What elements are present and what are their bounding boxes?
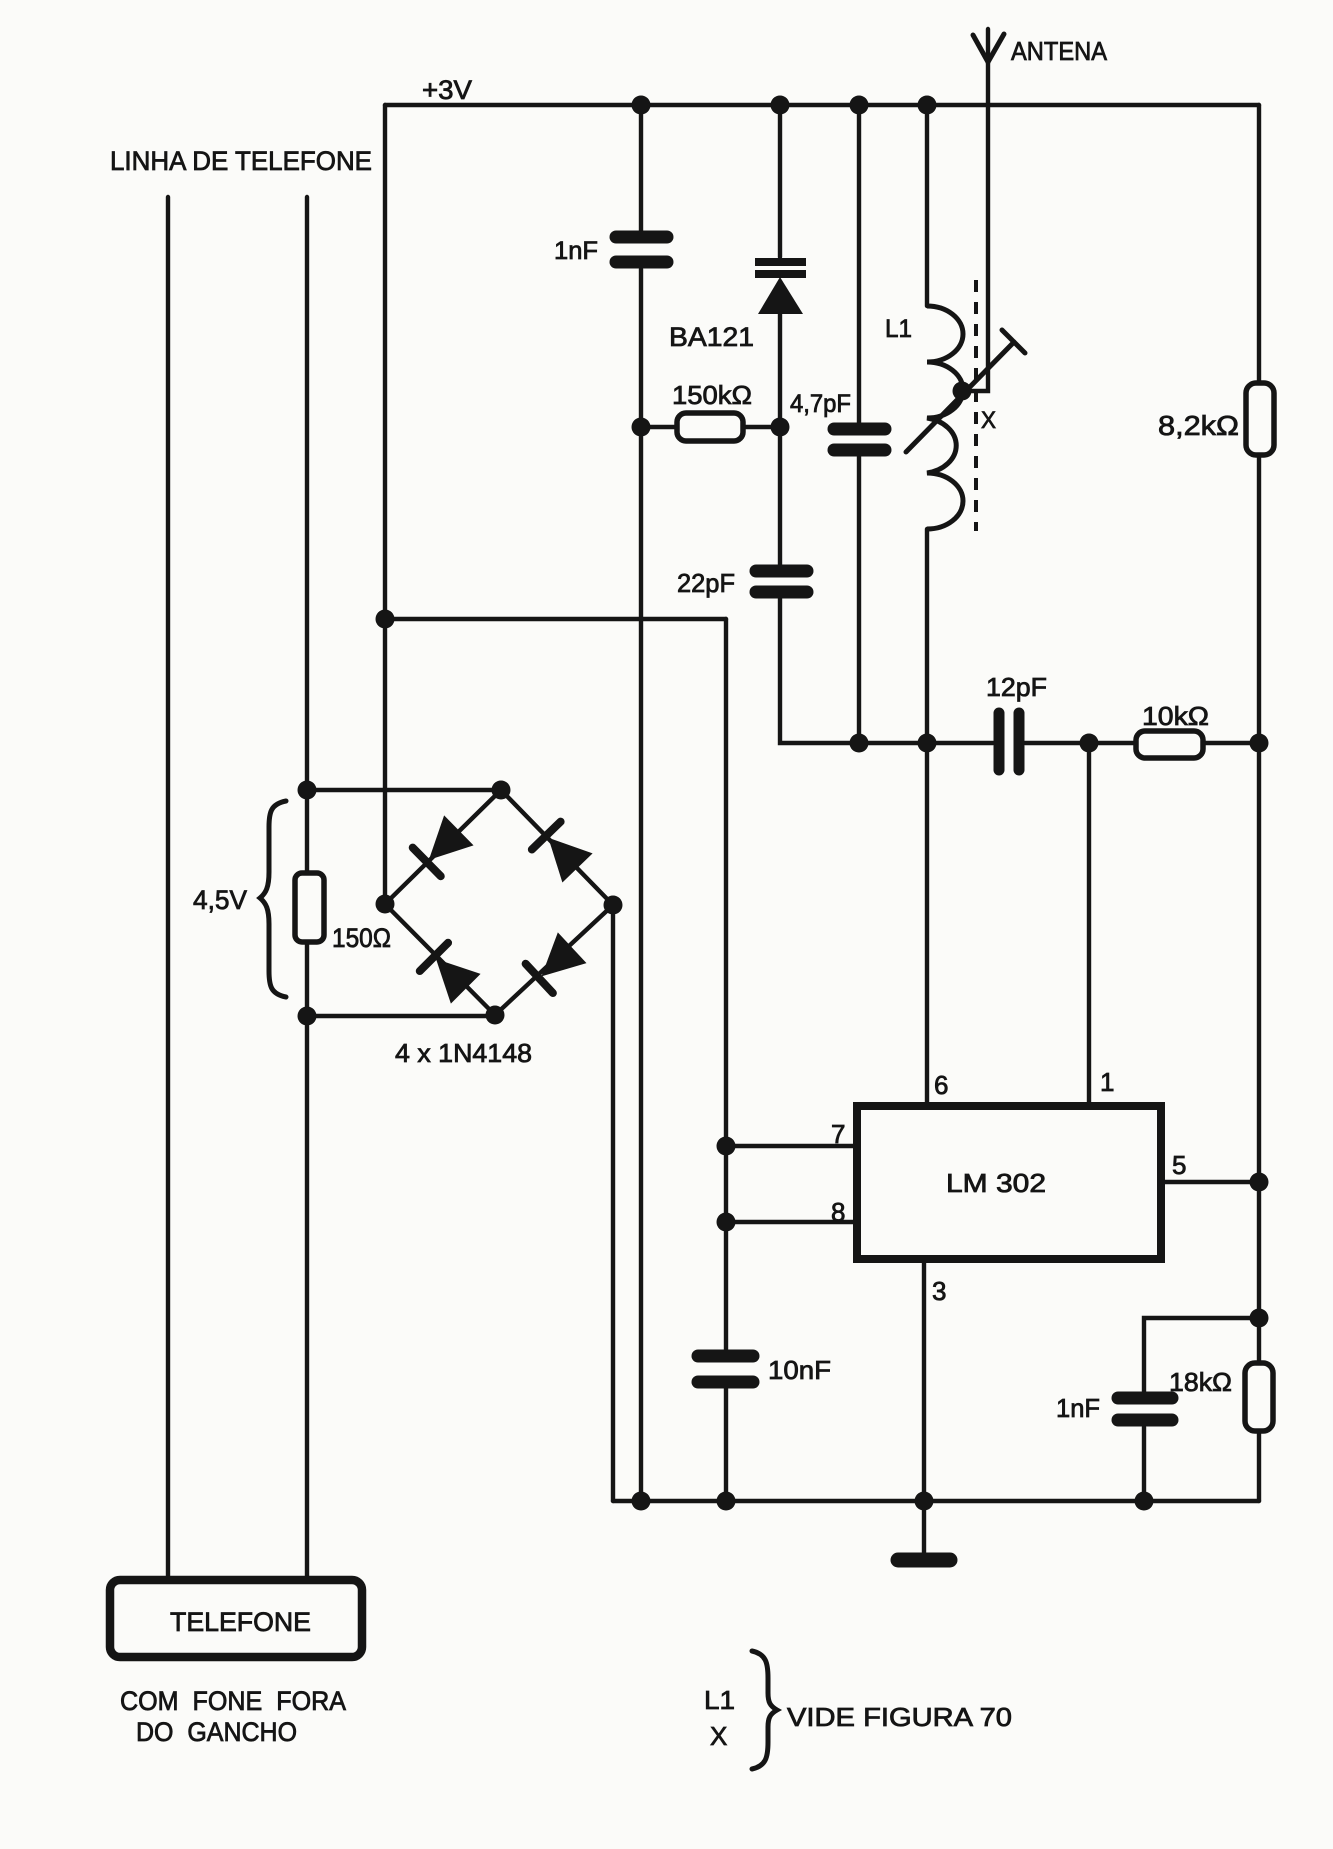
wire upper AC node to bridge top corner (307, 788, 501, 792)
inductor L1 coil (927, 306, 963, 529)
node dot top rail / L1 (918, 96, 937, 115)
wire BA121 anode to 22pF (778, 314, 782, 565)
svg-text:L1: L1 (885, 315, 912, 343)
node dot bridge bottom corner (486, 1006, 505, 1025)
core dashed line of L1 (974, 280, 978, 531)
capacitor C1 1nF plates (616, 237, 667, 262)
diode D4 bottom-right of bridge (525, 932, 587, 993)
node dot 18k top (1250, 1309, 1269, 1328)
resistor 18k body (1245, 1363, 1273, 1431)
resistor 150k body (677, 413, 743, 441)
svg-text:3: 3 (932, 1276, 946, 1306)
svg-text:10kΩ: 10kΩ (1142, 701, 1209, 731)
node dot mid rail / pin1 (1080, 734, 1099, 753)
wire pin 1 drop (1087, 743, 1091, 1102)
node dot ground rail / 1nF bottom branch (1135, 1492, 1154, 1511)
resistor 8.2k body (1246, 383, 1274, 455)
svg-text:8,2kΩ: 8,2kΩ (1158, 410, 1239, 441)
svg-text:1: 1 (1100, 1067, 1114, 1097)
node dot 150k right / BA121 anode (771, 418, 790, 437)
wire L1 branch from +3V to coil top (925, 105, 929, 306)
node dot 150k left (632, 418, 651, 437)
node dot mid rail / 4.7pF (850, 734, 869, 753)
wire bridge right corner drop to ground rail (611, 905, 615, 1501)
svg-text:TELEFONE: TELEFONE (170, 1607, 311, 1637)
svg-text:6: 6 (934, 1070, 948, 1100)
wire telephone line left (166, 197, 170, 1576)
svg-text:X: X (981, 407, 996, 434)
svg-text:COM FONE FORA: COM FONE FORA (120, 1686, 346, 1716)
resistor 150R body (295, 873, 324, 942)
brace 4.5V (260, 801, 286, 997)
wire 150k left lead (641, 425, 677, 429)
node dot branch A at x=385 (376, 610, 395, 629)
wire 22pF bottom, corner to mid node rail (780, 597, 993, 743)
varicap BA121 (755, 262, 806, 314)
ground (898, 1553, 950, 1568)
node dot pin 8 (717, 1213, 736, 1232)
wire 1nF(bottom) top to 18k node (1144, 1318, 1259, 1392)
svg-text:5: 5 (1172, 1150, 1186, 1180)
node dot ground rail / 1nF branch (632, 1492, 651, 1511)
wire 10k resistor to right rail (1203, 741, 1259, 745)
wire 1nF branch lower down to ground rail (639, 269, 643, 1501)
resistor 10k body (1136, 731, 1203, 758)
node dot phone line upper (298, 781, 317, 800)
wire x=726 drop to 10nF (724, 619, 728, 1350)
wire 1nF(bottom) branch from ground rail (1142, 1427, 1146, 1501)
node dot mid rail / L1 line (918, 734, 937, 753)
wire coil bottom down to pin 6 (925, 529, 929, 1102)
wire 150k right lead (743, 425, 780, 429)
svg-text:BA121: BA121 (669, 322, 754, 352)
wire 4.7pF branch lower to mid node (857, 456, 861, 743)
node dot top rail / 4.7pF (850, 96, 869, 115)
svg-text:1nF: 1nF (554, 237, 598, 265)
capacitor 10nF plates (698, 1356, 753, 1382)
node dot phone line lower (298, 1007, 317, 1026)
wire 12pF to 10k resistor (1025, 741, 1136, 745)
diode D3 bottom-left of bridge (419, 942, 481, 1004)
svg-text:10nF: 10nF (768, 1355, 831, 1385)
node dot bridge left corner (376, 895, 395, 914)
wire BA121 branch top (778, 105, 782, 257)
node dot pin 5 / right rail (1250, 1173, 1269, 1192)
node dot coil tap (953, 382, 972, 401)
wire 1nF branch upper (639, 105, 643, 231)
telephone box (110, 1580, 362, 1657)
svg-text:ANTENA: ANTENA (1011, 36, 1108, 66)
svg-text:150Ω: 150Ω (332, 923, 391, 953)
svg-text:4,5V: 4,5V (193, 885, 247, 915)
svg-text:LM 302: LM 302 (946, 1168, 1046, 1198)
wire right rail from +3V down to ground rail (1257, 105, 1261, 1501)
capacitor 12pF plates (999, 713, 1019, 770)
diode D1 top-left of bridge (412, 815, 474, 876)
node dot mid rail / right rail (1250, 734, 1269, 753)
svg-text:4,7pF: 4,7pF (790, 390, 851, 418)
node dot ground rail / 10nF branch (717, 1492, 736, 1511)
svg-text:L1: L1 (704, 1685, 735, 1715)
wire +3V top rail (385, 103, 1259, 107)
wire ground rail (613, 1499, 1259, 1503)
svg-text:+3V: +3V (422, 75, 472, 105)
capacitor 22pF plates (756, 571, 807, 592)
wire pin 3 down to ground symbol (922, 1263, 926, 1553)
wire 4.7pF branch upper (857, 105, 861, 423)
node dot ground rail / pin 3 (915, 1492, 934, 1511)
svg-text:VIDE FIGURA 70: VIDE FIGURA 70 (787, 1702, 1012, 1732)
wire branch at node A to the x=726 drop (385, 617, 726, 621)
node dot bridge right corner (604, 896, 623, 915)
wire bridge diamond edges (385, 790, 613, 1015)
svg-text:7: 7 (831, 1119, 845, 1149)
node dot top rail / BA121 (771, 96, 790, 115)
node dot top rail / 1nF (632, 96, 651, 115)
capacitor C-1nF bottom plates (1118, 1398, 1172, 1420)
capacitor 4.7pF plates (834, 429, 885, 450)
node dot bridge top corner (492, 781, 511, 800)
svg-text:150kΩ: 150kΩ (672, 380, 752, 410)
svg-text:4 x 1N4148: 4 x 1N4148 (395, 1038, 532, 1068)
svg-text:12pF: 12pF (986, 672, 1047, 702)
svg-text:DO GANCHO: DO GANCHO (136, 1717, 297, 1747)
brace L1/X bottom note (752, 1651, 777, 1769)
svg-text:22pF: 22pF (677, 568, 735, 598)
svg-text:8: 8 (831, 1197, 845, 1227)
svg-text:18kΩ: 18kΩ (1169, 1367, 1232, 1397)
wire pin 7 (726, 1144, 853, 1148)
op-amp U1 LM302 box (857, 1106, 1161, 1259)
diode D2 top-right of bridge (531, 821, 592, 883)
svg-text:LINHA DE TELEFONE: LINHA DE TELEFONE (110, 146, 372, 176)
wire telephone line right (305, 197, 309, 1576)
wire left vertical from +3V to bridge left corner (383, 105, 387, 904)
node dot pin 7 (717, 1137, 736, 1156)
wire 10nF bottom to ground rail (724, 1388, 728, 1501)
wire pin 8 (726, 1220, 853, 1224)
trimmer arrow through L1 (906, 330, 1025, 452)
wire lower AC node to bridge bottom corner (307, 1014, 495, 1018)
svg-text:1nF: 1nF (1056, 1393, 1100, 1423)
wire pin 5 (1165, 1180, 1259, 1184)
wire antenna lead-in down to coil tap (964, 29, 988, 391)
antenna symbol (973, 34, 1004, 62)
svg-text:X: X (710, 1721, 727, 1751)
